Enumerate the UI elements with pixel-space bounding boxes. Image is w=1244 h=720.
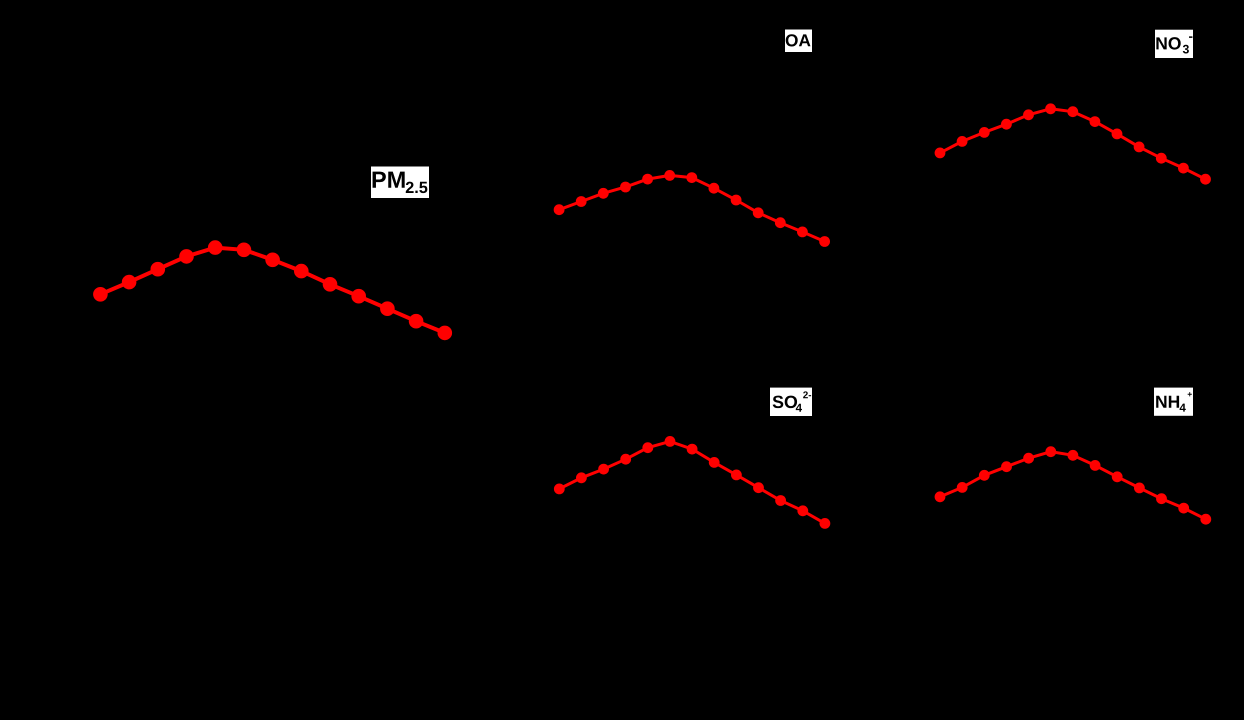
PM2.5 label box — [371, 167, 429, 199]
NH4+ diurnal curve (bottom right panel) — [935, 446, 1212, 524]
OA label box — [785, 30, 812, 53]
OA diurnal curve (top middle panel) — [554, 170, 830, 247]
NO3- label box — [1155, 30, 1193, 58]
SO42- diurnal curve (bottom middle panel) — [554, 436, 830, 529]
SO42- label box — [770, 388, 812, 416]
PM2.5 diurnal curve (big left panel) — [93, 240, 452, 340]
NH4+ label box — [1154, 388, 1193, 416]
NO3- diurnal curve (top right panel) — [935, 103, 1211, 184]
